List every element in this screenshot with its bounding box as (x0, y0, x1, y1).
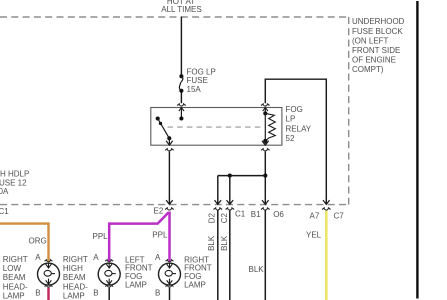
connector A7 at boundary (322, 208, 331, 210)
wire ground bus drop to D2 (217, 176, 219, 205)
relay switch movable contact (blade with dots and arrow) (156, 116, 173, 145)
fuse FOG LP FUSE 15A (179, 74, 183, 93)
label LEFT FRONT FOG LAMP (125, 255, 153, 289)
svg-text:YEL: YEL (306, 231, 322, 240)
wire hot feed down to fuse (180, 17, 182, 75)
svg-text:H HDLP: H HDLP (0, 170, 29, 179)
svg-text:O6: O6 (273, 210, 284, 219)
connector D2 at boundary (214, 208, 223, 210)
svg-text:C2: C2 (220, 213, 229, 224)
svg-text:OF ENGINE: OF ENGINE (352, 56, 396, 65)
underhood fuse block boundary, dashed top edge (0, 16, 349, 18)
svg-text:ORG: ORG (29, 236, 47, 245)
arrow into boundary at A7 (323, 200, 330, 204)
diagram page edge rule (heavy vertical line) (416, 1, 418, 299)
svg-text:HEAD-: HEAD- (63, 282, 88, 291)
wire BLK from D2 down (217, 210, 219, 300)
svg-text:A: A (93, 253, 99, 262)
svg-text:LAMP: LAMP (3, 291, 25, 300)
svg-text:D2: D2 (207, 213, 216, 224)
bulb right low beam headlamp (38, 260, 60, 287)
svg-text:HEAD-: HEAD- (3, 282, 28, 291)
svg-text:USE 12: USE 12 (0, 178, 27, 187)
wire relay coil feed up and over to pin A7 (265, 79, 326, 204)
svg-text:52: 52 (286, 134, 295, 143)
connector below relay, coil return pin (261, 149, 270, 151)
svg-text:B1: B1 (251, 210, 261, 219)
svg-text:E2: E2 (154, 207, 164, 216)
connector E2 at boundary (165, 208, 174, 210)
svg-text:B: B (93, 288, 98, 297)
svg-text:FUSE BLOCK: FUSE BLOCK (352, 27, 403, 36)
wire PPL branch from E2 to left front fog lamp (109, 212, 168, 261)
svg-text:FRONT SIDE: FRONT SIDE (352, 46, 400, 55)
connector below relay, switch output pin (165, 149, 174, 151)
svg-text:B: B (155, 288, 160, 297)
svg-text:UNDERHOOD: UNDERHOOD (352, 17, 405, 26)
underhood fuse block boundary, dashed bottom edge (0, 204, 349, 206)
wire ground bus horizontal (218, 175, 265, 177)
label RIGHT HIGH BEAM HEAD-LAMP (63, 255, 88, 300)
bulb left front fog lamp (98, 260, 120, 287)
wire ground bus drop to C2 (229, 176, 231, 205)
svg-text:COMPT): COMPT) (352, 65, 384, 74)
svg-text:BLK: BLK (249, 265, 265, 274)
wire BLK from B1 down (264, 210, 266, 300)
svg-text:15A: 15A (187, 85, 202, 94)
svg-text:RELAY: RELAY (286, 124, 312, 133)
svg-text:BEAM: BEAM (63, 273, 86, 282)
label RIGHT FRONT FOG LAMP (184, 255, 212, 289)
svg-text:A: A (35, 253, 41, 262)
svg-text:(ON LEFT: (ON LEFT (352, 36, 389, 45)
svg-text:BEAM: BEAM (3, 273, 26, 282)
wire BLK from C2 down (229, 210, 231, 300)
svg-text:PPL: PPL (93, 232, 109, 241)
junction on coil return wire (263, 174, 267, 178)
label RT H HDLP FUSE 12 10A (clipped at left edge) (0, 170, 29, 197)
svg-text:C1: C1 (0, 207, 9, 216)
svg-text:B: B (35, 288, 40, 297)
svg-text:ALL TIMES: ALL TIMES (161, 5, 201, 14)
svg-text:LAMP: LAMP (184, 281, 206, 290)
svg-text:A7: A7 (310, 211, 320, 220)
arrow into boundary at B1 (262, 200, 269, 204)
label UNDERHOOD FUSE BLOCK (ON LEFT FRONT SIDE OF ENGINE COMPT) (352, 17, 405, 74)
svg-text:RIGHT: RIGHT (63, 255, 88, 264)
svg-text:HIGH: HIGH (63, 264, 83, 273)
wire PNK below right low beam headlamp (47, 288, 50, 300)
svg-text:BLK: BLK (220, 235, 229, 251)
svg-text:0A: 0A (0, 187, 9, 196)
junction on ground bus (228, 174, 232, 178)
svg-text:FOG: FOG (286, 105, 303, 114)
relay coil (262, 108, 275, 146)
svg-text:LOW: LOW (3, 264, 22, 273)
connector at relay switch input pin (177, 104, 186, 106)
wire relay switch output down to E2 (168, 151, 170, 204)
arrow into boundary at D2 (215, 200, 222, 204)
label FOG LP RELAY 52 (286, 105, 312, 143)
svg-text:C7: C7 (334, 211, 345, 220)
underhood fuse block boundary, dashed right edge (348, 17, 350, 205)
wire fuse output to relay switch input (180, 93, 182, 104)
relay switch input terminal (arrow up and contact dot) (179, 108, 184, 121)
relay mechanical link (gray dashed) (168, 126, 264, 128)
connector at relay coil feed pin (261, 104, 270, 106)
svg-text:FUSE: FUSE (187, 76, 208, 85)
value label FOG LP FUSE 15A (187, 68, 216, 94)
wire PPL from E2 to right front fog lamp (168, 212, 171, 262)
bulb right front fog lamp (159, 260, 181, 287)
wire BLK below right front fog lamp (169, 288, 171, 300)
relay 52 outline box (151, 108, 282, 146)
net label HOT AT ALL TIMES (161, 0, 201, 14)
arrow into boundary at C2 (227, 200, 234, 204)
svg-text:LAMP: LAMP (125, 281, 147, 290)
label RIGHT LOW BEAM HEAD-LAMP (3, 255, 28, 300)
wire ORG from C1 to right low beam headlamp (0, 224, 49, 262)
svg-text:PPL: PPL (152, 231, 168, 240)
connector C2 at boundary (226, 208, 235, 210)
arrow into boundary at E2 (166, 200, 173, 204)
svg-text:A: A (155, 253, 161, 262)
connector B1 at boundary (261, 208, 270, 210)
wire BLK below left front fog lamp (108, 288, 110, 300)
svg-text:C1: C1 (235, 209, 246, 218)
wire relay coil return down to B1 (264, 151, 266, 204)
svg-text:RIGHT: RIGHT (3, 255, 28, 264)
wire YEL from A7 down (325, 211, 328, 300)
svg-text:LAMP: LAMP (63, 291, 85, 300)
svg-text:LP: LP (286, 115, 296, 124)
svg-text:FOG LP: FOG LP (187, 68, 216, 77)
svg-text:BLK: BLK (207, 235, 216, 251)
